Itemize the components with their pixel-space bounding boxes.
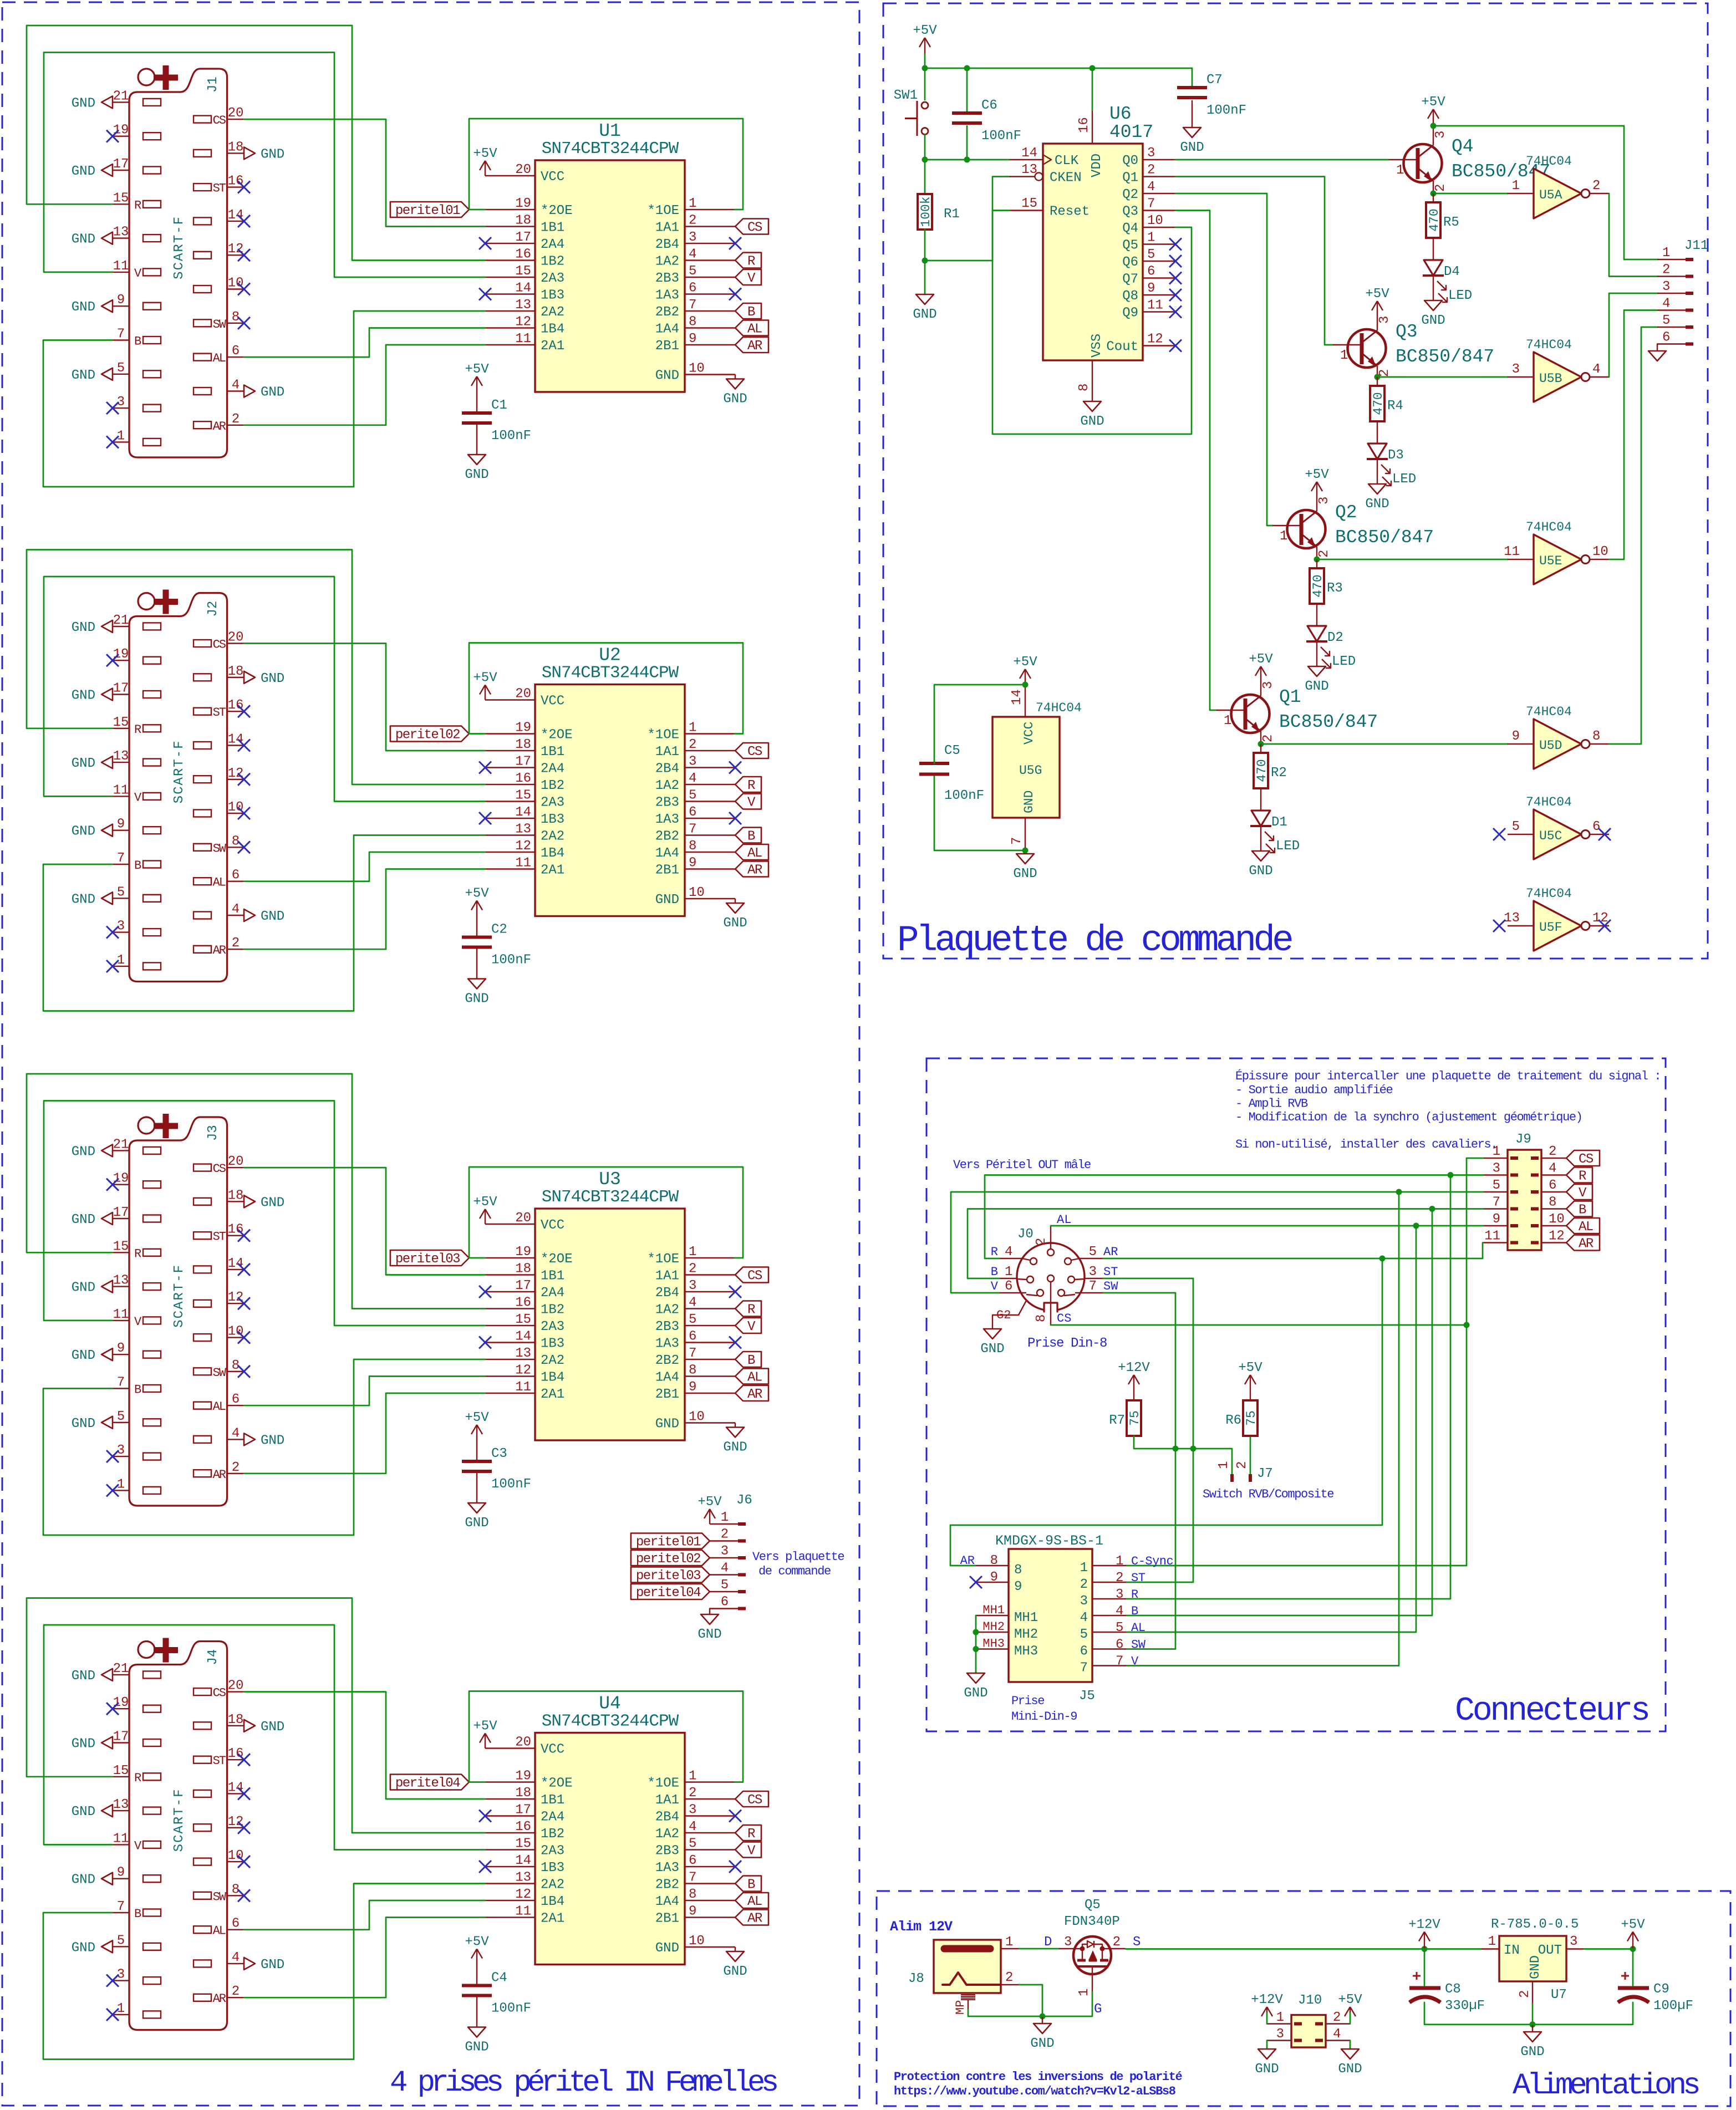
global label B at J9.8: [1566, 1201, 1592, 1218]
svg-text:2: 2: [689, 213, 696, 228]
junction CLK/C6: [964, 157, 970, 163]
svg-text:15: 15: [113, 1239, 129, 1254]
connector J6: [710, 1493, 752, 1610]
svg-text:18: 18: [515, 1262, 531, 1277]
no-connect U6 Cout: [1169, 340, 1182, 352]
wire ST: J0.3 down: [1103, 1278, 1193, 1449]
svg-text:peritel02: peritel02: [395, 728, 460, 743]
wire SW: to J5.6: [1126, 1449, 1175, 1649]
power GND below D3: [1365, 484, 1389, 512]
junction +12V / C8: [1422, 1946, 1428, 1952]
power +5V at U1 VCC: [473, 146, 497, 176]
svg-text:CS: CS: [747, 1793, 762, 1808]
note Prise Din-8: [1027, 1336, 1107, 1351]
svg-text:11: 11: [1147, 298, 1163, 313]
svg-text:1A1: 1A1: [655, 1793, 679, 1808]
svg-text:AR: AR: [960, 1554, 975, 1568]
svg-text:V: V: [747, 1844, 756, 1859]
svg-text:2: 2: [1549, 1144, 1556, 1159]
svg-text:17: 17: [113, 157, 129, 172]
svg-text:GND: GND: [72, 1212, 95, 1227]
global label CS at U1 pin 2: [735, 219, 768, 236]
svg-text:12: 12: [228, 1290, 244, 1305]
svg-text:13: 13: [113, 1797, 129, 1812]
svg-text:2B3: 2B3: [655, 271, 679, 286]
svg-text:470: 470: [1371, 392, 1386, 415]
no-connect J3 pin 12: [238, 1297, 250, 1309]
connector J11: [1657, 238, 1708, 345]
wire AR: to J5.8: [950, 1258, 1382, 1566]
global label peritel01 at J6.2: [631, 1533, 710, 1550]
IC U6 4017 body: [1010, 104, 1175, 401]
svg-text:9: 9: [1147, 281, 1155, 296]
svg-text:B: B: [747, 1878, 755, 1893]
svg-text:12: 12: [1147, 332, 1163, 347]
svg-text:13: 13: [515, 1346, 531, 1361]
svg-text:1: 1: [689, 1245, 696, 1260]
svg-text:R1: R1: [944, 207, 960, 222]
wire C1 to GND: [476, 425, 477, 455]
svg-text:2: 2: [689, 1262, 696, 1277]
svg-text:2: 2: [1518, 1990, 1533, 1998]
no-connect J1 pin 19: [106, 130, 119, 142]
svg-text:13: 13: [515, 1871, 531, 1885]
svg-text:1B3: 1B3: [541, 1861, 564, 1875]
no-connect U2 pin 3: [729, 762, 741, 774]
svg-text:MH1: MH1: [982, 1603, 1005, 1617]
svg-text:B: B: [1579, 1203, 1586, 1218]
svg-text:4: 4: [1592, 362, 1600, 377]
svg-text:8: 8: [689, 1363, 696, 1378]
wire Q4 emitter to R5: [1433, 193, 1434, 202]
svg-text:2: 2: [232, 1984, 240, 1999]
svg-text:GND: GND: [72, 368, 95, 383]
svg-text:15: 15: [1021, 196, 1037, 211]
svg-text:1A2: 1A2: [655, 254, 679, 269]
svg-text:BC850/847: BC850/847: [1279, 712, 1378, 732]
svg-text:2B2: 2B2: [655, 1353, 679, 1368]
svg-text:U5C: U5C: [1539, 829, 1562, 843]
connector J1 (SCART-F) body: [113, 65, 244, 457]
power GND at J1 pin 13: [72, 232, 113, 247]
resistor R5 470: [1426, 202, 1459, 238]
junction MH3: [973, 1646, 979, 1652]
power GND at J4 pin 4: [244, 1958, 284, 1973]
power GND at J10.4: [1338, 2049, 1362, 2077]
svg-text:+5V: +5V: [1338, 1992, 1362, 2007]
power +5V top-left rail: [913, 23, 937, 68]
no-connect J4 pin 8: [238, 1889, 250, 1902]
svg-text:*2OE: *2OE: [541, 1252, 573, 1267]
svg-text:Prise Din-8: Prise Din-8: [1027, 1336, 1107, 1351]
global label V at U1 pin 5: [735, 269, 761, 286]
title Plaquette de commande: [897, 920, 1292, 961]
junction +5V rail / C6: [964, 65, 970, 72]
no-connect U1 pin 17: [479, 237, 491, 249]
wire J8.2 to GND net: [1019, 1985, 1042, 2016]
svg-text:1: 1: [1116, 1554, 1123, 1569]
pin G2 of J0 to GND: [992, 1301, 1026, 1329]
power GND at J8: [1030, 2024, 1054, 2051]
global label B at U2 pin 7: [735, 828, 761, 844]
svg-text:9: 9: [117, 1341, 125, 1356]
wire D4 to GND: [1433, 276, 1434, 300]
svg-text:GND: GND: [1520, 2045, 1544, 2060]
svg-text:12: 12: [1549, 1229, 1565, 1244]
svg-text:SN74CBT3244CPW: SN74CBT3244CPW: [542, 664, 679, 683]
wire Q3 emitter to R4: [1377, 377, 1378, 386]
svg-text:B: B: [747, 829, 755, 844]
wire rail to U6 VDD: [1092, 68, 1093, 110]
svg-text:GND: GND: [723, 1964, 747, 1979]
global label V at U3 pin 5: [735, 1318, 761, 1334]
svg-text:12: 12: [515, 1887, 531, 1902]
svg-text:VCC: VCC: [541, 694, 564, 709]
capacitor C9 100uF: [1618, 1972, 1693, 2014]
svg-text:8: 8: [689, 1887, 696, 1902]
svg-text:GND: GND: [1365, 497, 1389, 512]
svg-text:V: V: [991, 1280, 999, 1293]
svg-text:6: 6: [232, 1392, 240, 1407]
svg-text:C8: C8: [1445, 1982, 1461, 1997]
svg-text:Vers Péritel OUT mâle: Vers Péritel OUT mâle: [953, 1158, 1091, 1172]
global label CS at U3 pin 2: [735, 1267, 768, 1284]
svg-text:+5V: +5V: [465, 362, 489, 377]
svg-text:J1: J1: [206, 77, 221, 93]
svg-text:GND: GND: [1255, 2062, 1279, 2077]
svg-text:7: 7: [1116, 1654, 1123, 1669]
svg-text:3: 3: [1512, 362, 1520, 377]
svg-text:6: 6: [689, 805, 696, 820]
svg-text:5: 5: [689, 1312, 696, 1327]
power GND at J4 pin 9: [72, 1873, 113, 1888]
power +5V at C9: [1621, 1918, 1645, 1949]
no-connect J3 pin 1: [106, 1484, 119, 1496]
svg-text:13: 13: [113, 749, 129, 764]
svg-text:2B1: 2B1: [655, 1912, 679, 1926]
global label CS at J9.2: [1566, 1150, 1600, 1167]
svg-text:C3: C3: [491, 1446, 507, 1461]
inverter U5A 74HC04: [1508, 154, 1609, 218]
svg-text:SCART-F: SCART-F: [172, 216, 187, 279]
svg-text:Épissure pour intercaller une: Épissure pour intercaller une plaquette …: [1235, 1069, 1661, 1083]
svg-text:21: 21: [113, 1662, 129, 1676]
svg-text:5: 5: [117, 885, 125, 900]
svg-text:4: 4: [1549, 1161, 1556, 1176]
global label R at U1 pin 4: [735, 253, 761, 269]
svg-text:Q2: Q2: [1122, 187, 1138, 202]
power +5V at Q2 collector: [1305, 467, 1329, 492]
wire U5D output to J11.5: [1609, 327, 1657, 744]
svg-text:100nF: 100nF: [491, 1477, 531, 1492]
note Vers Peritel OUT male: [953, 1158, 1091, 1172]
svg-text:5: 5: [1080, 1627, 1088, 1642]
svg-text:3: 3: [1147, 146, 1155, 161]
junction SW: [1173, 1446, 1179, 1452]
svg-text:GND: GND: [72, 96, 95, 111]
wire Q2 emitter to U5E input: [1317, 559, 1508, 560]
svg-text:B: B: [747, 1353, 755, 1368]
svg-text:SW: SW: [213, 842, 227, 855]
svg-text:6: 6: [1592, 819, 1600, 834]
svg-text:GND: GND: [465, 467, 488, 482]
svg-text:SW1: SW1: [894, 88, 918, 103]
wire peritel to U1.19: [469, 209, 485, 211]
svg-text:2A1: 2A1: [541, 1912, 564, 1926]
svg-text:R6: R6: [1225, 1413, 1241, 1428]
svg-text:4: 4: [232, 1426, 240, 1441]
svg-text:B: B: [134, 1907, 141, 1921]
svg-text:AR: AR: [213, 420, 226, 434]
svg-text:5: 5: [689, 788, 696, 803]
svg-text:GND: GND: [1249, 864, 1272, 879]
svg-text:+5V: +5V: [1305, 467, 1329, 482]
svg-text:2: 2: [1333, 2010, 1341, 2025]
svg-text:2A4: 2A4: [541, 762, 564, 777]
svg-text:J4: J4: [206, 1649, 221, 1665]
svg-text:10: 10: [228, 800, 244, 815]
svg-text:17: 17: [113, 1730, 129, 1745]
no-connect J5.9: [970, 1576, 982, 1588]
wire D3 to GND: [1377, 459, 1378, 484]
svg-text:9: 9: [1512, 729, 1520, 744]
junction B: [1429, 1206, 1435, 1212]
wire B: J2.7 to U2.13: [43, 835, 485, 1011]
svg-text:+5V: +5V: [1421, 95, 1445, 110]
wire AL: J0.2 to J9.9: [1051, 1225, 1483, 1227]
svg-text:75: 75: [1128, 1410, 1142, 1426]
svg-text:2B2: 2B2: [655, 829, 679, 844]
svg-text:2: 2: [1034, 1238, 1049, 1246]
svg-text:2A1: 2A1: [541, 1387, 564, 1402]
svg-text:VCC: VCC: [541, 170, 564, 185]
wire D2 to GND: [1316, 641, 1317, 666]
svg-text:GND: GND: [261, 909, 284, 924]
power GND at J4 pin 18: [244, 1720, 284, 1735]
svg-text:R: R: [747, 778, 755, 793]
svg-text:- Ampli RVB: - Ampli RVB: [1235, 1097, 1308, 1111]
svg-text:3: 3: [1662, 279, 1670, 294]
svg-text:J9: J9: [1515, 1132, 1531, 1147]
svg-text:17: 17: [515, 1803, 531, 1818]
no-connect J4 pin 12: [238, 1822, 250, 1834]
svg-text:peritel03: peritel03: [636, 1569, 700, 1584]
svg-text:1: 1: [1276, 2010, 1284, 2025]
wire AR: J1.2 to U1.11: [244, 345, 485, 425]
svg-text:17: 17: [515, 1278, 531, 1293]
power +5V at J10.2: [1338, 1992, 1362, 2016]
svg-text:1A4: 1A4: [655, 1894, 679, 1909]
wire rail to C6: [966, 68, 968, 113]
svg-text:12: 12: [515, 839, 531, 854]
IC U1 SN74CBT3244CPW body: [485, 121, 735, 392]
svg-text:17: 17: [515, 230, 531, 245]
svg-text:2A4: 2A4: [541, 237, 564, 252]
wire J5 MH1 to GND: [975, 1615, 977, 1673]
svg-text:100nF: 100nF: [491, 953, 531, 968]
svg-text:AR: AR: [747, 1387, 762, 1402]
wire GND net to GND: [1042, 2016, 1043, 2024]
svg-text:peritel02: peritel02: [636, 1552, 700, 1567]
svg-text:R: R: [134, 1247, 141, 1261]
svg-text:8: 8: [1034, 1314, 1049, 1322]
wire U1 GND pin elbow: [735, 375, 736, 379]
svg-text:U6: U6: [1109, 104, 1132, 124]
svg-text:11: 11: [113, 1831, 129, 1846]
svg-text:R: R: [747, 254, 755, 269]
svg-text:19: 19: [113, 1171, 129, 1186]
svg-text:V: V: [747, 796, 756, 811]
wire +5V to J11.1: [1433, 126, 1657, 259]
svg-text:SN74CBT3244CPW: SN74CBT3244CPW: [542, 1187, 679, 1207]
svg-text:MP: MP: [954, 2000, 968, 2015]
svg-text:100nF: 100nF: [944, 788, 984, 803]
no-connect U4 pin 6: [729, 1861, 741, 1873]
no-connect J1 pin 1: [106, 436, 119, 448]
no-connect J2 pin 12: [238, 773, 250, 786]
svg-text:+5V: +5V: [465, 1935, 489, 1950]
svg-text:AR: AR: [1103, 1245, 1118, 1259]
svg-text:5: 5: [1493, 1178, 1500, 1193]
svg-text:74HC04: 74HC04: [1526, 520, 1572, 534]
svg-text:4017: 4017: [1109, 122, 1153, 142]
svg-text:3: 3: [1493, 1161, 1500, 1176]
title 4 prises peritel IN Femelles: [390, 2066, 777, 2100]
wire J6.6 to GND: [709, 1609, 710, 1615]
svg-text:4: 4: [1147, 180, 1155, 195]
svg-text:SN74CBT3244CPW: SN74CBT3244CPW: [542, 139, 679, 159]
svg-text:6: 6: [1662, 330, 1670, 345]
svg-text:+5V: +5V: [1365, 287, 1389, 302]
wire B: J4.7 to U4.13: [43, 1884, 485, 2060]
wire U6.Q3 to Q1 base: [1175, 211, 1216, 711]
junction Q4 collector / J11.1: [1430, 123, 1437, 129]
wire U5E output to J11.4: [1609, 310, 1657, 560]
IC U5G 74HC04 power body: [992, 685, 1082, 850]
no-connect J2 pin 16: [238, 705, 250, 717]
svg-text:GND: GND: [261, 1433, 284, 1448]
svg-text:12: 12: [228, 766, 244, 781]
dashed box Connecteurs: [926, 1058, 1666, 1731]
svg-text:*2OE: *2OE: [541, 1776, 573, 1791]
svg-text:4: 4: [1333, 2027, 1341, 2042]
power GND at J5 MH: [964, 1673, 987, 1701]
no-connect U6 Q6: [1169, 255, 1182, 267]
wire CS: J4.20 to U4.18: [244, 1692, 485, 1799]
svg-text:5: 5: [117, 1409, 125, 1424]
wire R: J1.15 to U1.16: [27, 26, 485, 261]
svg-text:SW: SW: [1103, 1280, 1118, 1293]
svg-text:LED: LED: [1276, 839, 1300, 854]
svg-text:16: 16: [515, 1296, 531, 1311]
svg-text:13: 13: [113, 225, 129, 240]
svg-text:1B3: 1B3: [541, 812, 564, 827]
svg-text:AL: AL: [1131, 1621, 1145, 1635]
svg-text:3: 3: [1377, 316, 1392, 324]
wire C8 to GND net: [1424, 2002, 1533, 2025]
svg-text:19: 19: [515, 196, 531, 211]
svg-text:15: 15: [113, 1764, 129, 1778]
svg-text:GND: GND: [1080, 414, 1104, 429]
no-connect U4 pin 3: [729, 1810, 741, 1822]
svg-text:3: 3: [1261, 681, 1276, 689]
svg-text:4: 4: [689, 771, 696, 786]
svg-text:1: 1: [689, 1769, 696, 1784]
svg-text:AL: AL: [1057, 1213, 1071, 1227]
svg-text:B: B: [134, 335, 141, 349]
svg-text:2: 2: [1317, 550, 1332, 558]
svg-text:U3: U3: [599, 1169, 621, 1190]
note Prise Mini-Din-9: [1011, 1694, 1077, 1724]
svg-text:13: 13: [515, 822, 531, 837]
svg-text:C2: C2: [491, 923, 507, 937]
svg-text:CS: CS: [1579, 1152, 1594, 1167]
svg-text:R4: R4: [1387, 399, 1403, 414]
svg-text:MH1: MH1: [1014, 1610, 1038, 1625]
svg-text:2: 2: [232, 412, 240, 427]
junction MH2: [973, 1629, 979, 1635]
svg-text:Q7: Q7: [1122, 272, 1138, 287]
IC U2 SN74CBT3244CPW body: [485, 645, 735, 916]
svg-text:3: 3: [721, 1544, 729, 1559]
svg-text:8: 8: [990, 1553, 998, 1568]
svg-text:R: R: [1131, 1588, 1138, 1602]
svg-text:11: 11: [515, 332, 531, 346]
svg-text:11: 11: [515, 1380, 531, 1395]
no-connect U6 Q7: [1169, 272, 1182, 284]
svg-text:J5: J5: [1079, 1689, 1095, 1704]
junction AL: [1413, 1223, 1419, 1229]
svg-text:10: 10: [689, 1934, 705, 1949]
svg-text:7: 7: [1080, 1661, 1088, 1676]
svg-text:GND: GND: [723, 392, 747, 407]
wire AR: J0.5 to J9.11: [1103, 1243, 1483, 1259]
wire J10.1 up: [1266, 2012, 1268, 2024]
no-connect U3 pin 6: [729, 1337, 741, 1349]
svg-text:MH3: MH3: [1014, 1644, 1038, 1659]
wire U6.Q1 to Q3 base: [1175, 177, 1333, 345]
svg-text:16: 16: [515, 247, 531, 262]
svg-text:ST: ST: [1103, 1265, 1118, 1279]
wire C5 top to U5G VCC: [934, 685, 1025, 763]
svg-text:2B1: 2B1: [655, 339, 679, 354]
svg-text:7: 7: [117, 327, 125, 342]
svg-text:U5B: U5B: [1539, 371, 1562, 386]
svg-text:2B4: 2B4: [655, 762, 679, 777]
svg-text:B: B: [991, 1265, 998, 1279]
svg-text:B: B: [134, 1383, 141, 1397]
connector J9 body: [1483, 1132, 1566, 1250]
svg-text:U2: U2: [599, 645, 621, 666]
svg-text:+5V: +5V: [465, 886, 489, 901]
wire V: J0.6 to J9.5: [951, 1192, 1483, 1293]
svg-text:LED: LED: [1448, 288, 1472, 303]
capacitor C1 100nF: [462, 398, 531, 444]
svg-text:8: 8: [1592, 729, 1600, 744]
svg-text:10: 10: [228, 1324, 244, 1339]
svg-text:11: 11: [113, 1307, 129, 1322]
svg-text:9: 9: [1014, 1579, 1022, 1594]
svg-text:1A4: 1A4: [655, 322, 679, 337]
svg-text:7: 7: [117, 1899, 125, 1914]
svg-text:12: 12: [228, 242, 244, 257]
svg-text:D4: D4: [1444, 264, 1460, 279]
wire R7 to J7.1: [1134, 1436, 1232, 1474]
transistor Q5 FDN340P: [1044, 1898, 1141, 2017]
power +5V at U3 VCC: [473, 1195, 497, 1224]
power GND at J1 pin 17: [72, 164, 113, 179]
svg-text:2B3: 2B3: [655, 1319, 679, 1334]
